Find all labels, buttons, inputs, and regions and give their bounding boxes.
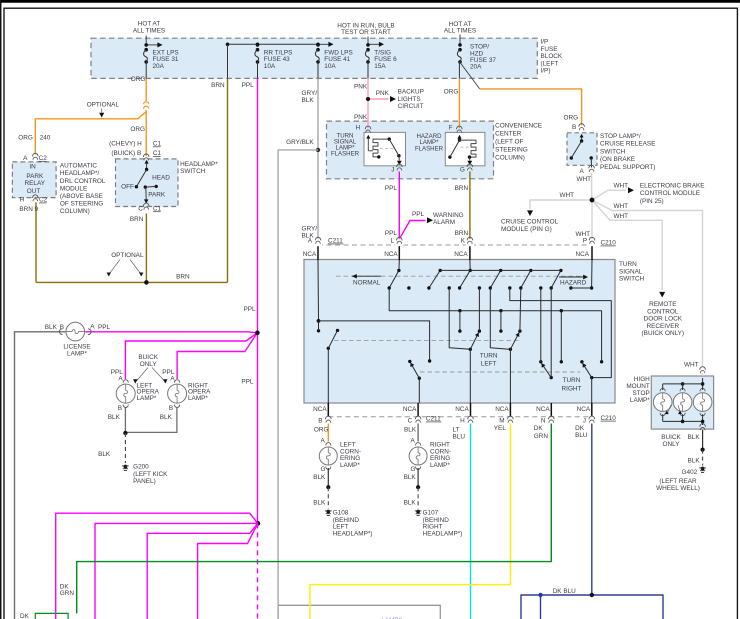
svg-text:OPTIONAL: OPTIONAL (111, 252, 144, 259)
svg-text:BLK: BLK (688, 434, 701, 441)
svg-text:10A: 10A (324, 63, 336, 70)
svg-text:(BUICK) B: (BUICK) B (111, 150, 141, 157)
svg-text:G107: G107 (423, 510, 439, 517)
svg-text:M: M (499, 418, 504, 425)
svg-text:CONVENIENCE: CONVENIENCE (495, 123, 542, 130)
svg-text:ORG: ORG (130, 126, 145, 133)
svg-text:HEAD: HEAD (152, 175, 170, 182)
svg-text:LAMP*: LAMP* (137, 395, 157, 402)
svg-text:ORG: ORG (444, 88, 459, 95)
svg-text:BRN: BRN (211, 82, 225, 89)
svg-text:LAMP*: LAMP* (630, 397, 650, 404)
svg-text:BRN: BRN (455, 230, 469, 237)
svg-text:DK: DK (575, 425, 585, 432)
svg-text:PPL: PPL (412, 211, 425, 218)
svg-text:TURN: TURN (563, 377, 581, 384)
svg-text:MOUNT: MOUNT (626, 383, 650, 390)
svg-text:J: J (583, 418, 586, 425)
svg-text:G: G (411, 466, 416, 473)
svg-text:GRN: GRN (534, 433, 549, 440)
svg-text:OUT: OUT (27, 188, 41, 195)
svg-text:I/P: I/P (541, 39, 549, 46)
svg-text:GRY/BLK: GRY/BLK (286, 139, 314, 146)
svg-text:C: C (138, 205, 143, 212)
svg-text:NCA: NCA (403, 406, 417, 413)
svg-text:LEFT: LEFT (481, 360, 497, 367)
svg-text:NCA: NCA (455, 406, 469, 413)
svg-text:WHT: WHT (684, 362, 699, 369)
svg-text:A: A (411, 438, 416, 445)
svg-text:G200: G200 (133, 463, 149, 470)
svg-text:SWITCH: SWITCH (619, 276, 645, 283)
svg-text:AUTOMATIC: AUTOMATIC (60, 163, 97, 170)
svg-text:G402: G402 (682, 469, 698, 476)
svg-text:20A: 20A (470, 64, 482, 71)
svg-text:NORMAL: NORMAL (353, 279, 381, 286)
svg-text:GRY/: GRY/ (302, 90, 318, 97)
svg-text:F: F (449, 125, 453, 132)
svg-text:PNK: PNK (354, 84, 368, 91)
svg-text:STEERING: STEERING (495, 146, 528, 153)
svg-text:P: P (583, 238, 587, 245)
svg-text:OPTIONAL: OPTIONAL (87, 102, 120, 109)
svg-text:LT: LT (453, 427, 460, 434)
svg-text:WHT: WHT (560, 192, 575, 199)
svg-text:NCA: NCA (313, 406, 327, 413)
svg-text:G108: G108 (333, 510, 349, 517)
svg-text:TURN: TURN (619, 261, 637, 268)
svg-text:ALL TIMES: ALL TIMES (444, 28, 476, 35)
svg-text:BLU: BLU (575, 432, 588, 439)
svg-text:CRUISE RELEASE: CRUISE RELEASE (600, 141, 655, 148)
svg-text:DOOR LOCK: DOOR LOCK (644, 316, 683, 323)
svg-text:HIGH: HIGH (634, 376, 650, 383)
svg-text:K: K (461, 238, 466, 245)
svg-text:RECEIVER: RECEIVER (646, 323, 679, 330)
svg-text:PPL: PPL (244, 306, 257, 313)
svg-text:BLK: BLK (160, 414, 173, 421)
svg-text:PARK: PARK (26, 173, 44, 180)
svg-text:WHT: WHT (614, 213, 629, 220)
svg-text:240: 240 (40, 135, 51, 142)
svg-text:H: H (20, 197, 25, 204)
svg-text:SWITCH: SWITCH (600, 148, 626, 155)
svg-text:(CHEVY) H: (CHEVY) H (109, 141, 142, 148)
svg-text:BLK: BLK (688, 457, 701, 464)
svg-text:RIGHT: RIGHT (562, 385, 582, 392)
svg-text:ORG: ORG (131, 76, 146, 83)
svg-text:STOP: STOP (633, 390, 650, 397)
svg-text:RELAY: RELAY (25, 180, 46, 187)
svg-text:GRY/: GRY/ (302, 226, 318, 233)
svg-text:BLK: BLK (302, 97, 315, 104)
svg-text:A: A (308, 238, 313, 245)
svg-text:ORG: ORG (564, 115, 579, 122)
svg-text:J: J (391, 167, 394, 174)
svg-text:BUICK: BUICK (661, 434, 681, 441)
svg-text:ELECTRONIC BRAKE: ELECTRONIC BRAKE (640, 182, 705, 189)
svg-text:BLK: BLK (45, 324, 58, 331)
svg-text:C: C (408, 418, 413, 425)
svg-text:SWITCH: SWITCH (180, 168, 206, 175)
svg-text:LIGHTS: LIGHTS (398, 96, 421, 103)
svg-text:B: B (118, 405, 122, 412)
svg-text:PNK: PNK (376, 90, 390, 97)
svg-text:REMOTE: REMOTE (649, 301, 676, 308)
svg-text:BLK: BLK (108, 414, 121, 421)
svg-text:A: A (170, 375, 175, 382)
svg-text:20A: 20A (153, 63, 165, 70)
svg-text:PPL: PPL (242, 82, 255, 89)
svg-text:15A: 15A (374, 63, 386, 70)
svg-text:HEADLAMP*): HEADLAMP*) (423, 530, 463, 537)
svg-text:PANEL): PANEL) (133, 478, 156, 485)
svg-text:CRUISE CONTROL: CRUISE CONTROL (501, 219, 559, 226)
svg-text:10A: 10A (264, 63, 276, 70)
svg-text:BLK: BLK (404, 474, 417, 481)
svg-text:WHEEL WELL): WHEEL WELL) (656, 485, 700, 492)
svg-text:WHT: WHT (614, 183, 629, 190)
svg-text:L: L (390, 238, 394, 245)
svg-text:COLUMN): COLUMN) (60, 208, 90, 215)
svg-text:FUSE: FUSE (541, 46, 558, 53)
svg-text:PPL: PPL (241, 379, 254, 386)
svg-text:PPL: PPL (98, 324, 111, 331)
svg-text:(LEFT KICK: (LEFT KICK (133, 471, 168, 478)
svg-text:GRN: GRN (60, 590, 75, 597)
svg-text:OF STEERING: OF STEERING (60, 201, 103, 208)
svg-text:BRN: BRN (176, 273, 190, 280)
svg-text:ALL TIMES: ALL TIMES (133, 27, 165, 34)
svg-text:SIGNAL: SIGNAL (619, 268, 643, 275)
svg-text:BUICK: BUICK (138, 354, 158, 361)
svg-text:A: A (321, 438, 326, 445)
svg-text:STOP LAMP*/: STOP LAMP*/ (600, 133, 641, 140)
svg-text:I/P): I/P) (541, 68, 551, 75)
svg-text:NCA: NCA (384, 251, 398, 258)
svg-text:HAZARD: HAZARD (560, 279, 587, 286)
svg-text:LAMP*: LAMP* (188, 395, 208, 402)
svg-text:LAMP*: LAMP* (340, 462, 360, 469)
svg-text:CENTER: CENTER (495, 131, 522, 138)
svg-text:BLK: BLK (98, 451, 111, 458)
svg-text:NCA: NCA (303, 251, 317, 258)
svg-text:NCA: NCA (536, 406, 550, 413)
svg-text:ONLY: ONLY (140, 361, 158, 368)
svg-text:(ON BRAKE: (ON BRAKE (600, 156, 635, 163)
svg-text:FLASHER: FLASHER (331, 150, 360, 157)
svg-text:HEADLAMP*): HEADLAMP*) (333, 530, 373, 537)
svg-text:B: B (318, 418, 322, 425)
svg-text:ONLY: ONLY (663, 441, 681, 448)
svg-text:B: B (169, 405, 173, 412)
svg-text:(LEFT: (LEFT (541, 60, 559, 67)
svg-text:BRN: BRN (19, 206, 33, 213)
svg-text:ORG: ORG (314, 427, 329, 434)
svg-text:MODULE: MODULE (60, 185, 87, 192)
svg-text:ALARM: ALARM (433, 219, 455, 226)
svg-text:YEL: YEL (494, 425, 507, 432)
svg-text:BACKUP: BACKUP (398, 89, 424, 96)
svg-text:BLK: BLK (404, 500, 417, 507)
svg-text:WHT: WHT (577, 176, 592, 183)
svg-text:BLK: BLK (404, 427, 417, 434)
svg-text:NCA: NCA (577, 406, 591, 413)
svg-text:(ABOVE BASE: (ABOVE BASE (60, 193, 103, 200)
svg-text:LAMP*: LAMP* (430, 462, 450, 469)
svg-text:CONTROL MODULE: CONTROL MODULE (640, 190, 700, 197)
svg-text:TEST OR START: TEST OR START (341, 29, 391, 36)
svg-text:B: B (60, 324, 64, 331)
svg-text:FLASHER: FLASHER (415, 145, 444, 152)
svg-text:BRN: BRN (130, 216, 144, 223)
svg-text:BLK: BLK (313, 500, 326, 507)
svg-text:DK: DK (534, 425, 544, 432)
svg-text:A: A (118, 375, 123, 382)
svg-text:H: H (460, 418, 465, 425)
svg-text:A: A (90, 323, 95, 330)
svg-text:N: N (541, 418, 546, 425)
svg-text:NCA: NCA (454, 251, 468, 258)
svg-text:(LEFT REAR: (LEFT REAR (659, 478, 697, 485)
svg-text:CIRCUIT: CIRCUIT (398, 103, 424, 110)
svg-text:DRL CONTROL: DRL CONTROL (60, 178, 106, 185)
svg-text:PNK: PNK (354, 114, 368, 121)
svg-text:A: A (579, 168, 584, 175)
svg-text:OFF: OFF (121, 184, 134, 191)
svg-text:PPL: PPL (385, 185, 398, 192)
svg-text:B: B (572, 124, 576, 131)
svg-text:G: G (460, 167, 465, 174)
svg-text:WARNING: WARNING (433, 212, 464, 219)
svg-text:BRN: BRN (455, 185, 469, 192)
svg-text:TURN: TURN (480, 352, 498, 359)
svg-text:BLU: BLU (453, 434, 466, 441)
svg-text:CONTROL: CONTROL (647, 308, 679, 315)
svg-text:BLK: BLK (313, 474, 326, 481)
svg-text:H: H (356, 125, 361, 132)
svg-text:MODULE (PIN G): MODULE (PIN G) (501, 226, 552, 233)
svg-text:COLUMN): COLUMN) (495, 154, 525, 161)
svg-text:A: A (23, 155, 28, 162)
svg-text:LAMP*: LAMP* (67, 350, 87, 357)
svg-text:(PIN 25): (PIN 25) (640, 198, 664, 205)
svg-text:PEDAL SUPPORT): PEDAL SUPPORT) (600, 164, 655, 171)
svg-text:(LEFT OF: (LEFT OF (495, 139, 523, 146)
svg-text:IN: IN (29, 164, 36, 171)
svg-text:PARK: PARK (148, 192, 166, 199)
svg-text:LICENSE: LICENSE (63, 343, 90, 350)
svg-text:HEADLAMP*/: HEADLAMP*/ (60, 170, 100, 177)
svg-text:9: 9 (35, 206, 39, 213)
svg-text:G: G (321, 466, 326, 473)
svg-text:PPL: PPL (385, 230, 398, 237)
svg-text:ORG: ORG (18, 135, 33, 142)
svg-text:NCA: NCA (576, 251, 590, 258)
svg-text:WHT: WHT (614, 203, 629, 210)
svg-text:DK: DK (20, 613, 30, 619)
svg-text:(BUICK ONLY): (BUICK ONLY) (642, 330, 685, 337)
svg-text:BLOCK: BLOCK (541, 53, 563, 60)
svg-text:DK BLU: DK BLU (553, 588, 576, 595)
svg-text:NCA: NCA (495, 406, 509, 413)
